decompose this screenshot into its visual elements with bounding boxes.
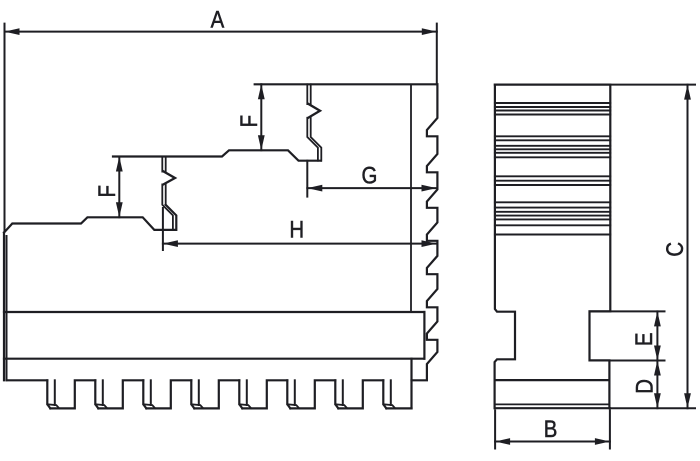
right view serration line y=140.3 — [495, 139, 610, 141]
right view serration line y=107.0 — [495, 106, 610, 108]
tooth 3 left outer edge with corner chamfer — [143, 380, 146, 408]
dimension D arrow down — [654, 393, 661, 408]
dimension H arrow right — [422, 240, 437, 247]
tooth 8 left outer edge with corner chamfer — [383, 380, 386, 408]
dimension E/D extension middle — [612, 360, 665, 362]
tooth 4 left outer edge with corner chamfer — [191, 380, 194, 408]
right view serration line y=234.5 — [495, 234, 610, 236]
dimension A extension line left — [4, 24, 6, 232]
tooth 2 chamfer facet ridge — [95, 404, 107, 408]
right view serration line y=145.8 — [495, 145, 610, 147]
right view serration line y=103.0 — [495, 102, 610, 104]
dimension C arrow down — [684, 393, 691, 408]
jaw left edge inner line — [6, 236, 8, 380]
mounting band right edge — [423, 312, 425, 359]
tooth 5 chamfer facet ridge — [239, 404, 251, 408]
right view serration line y=152.8 — [495, 152, 610, 154]
right view serration line y=202.3 — [495, 201, 610, 203]
tooth 5 left inner edge — [246, 380, 248, 405]
right view serration line y=211.8 — [495, 211, 610, 213]
riser-2 break zigzag — [308, 104, 320, 118]
right view serration line y=207.6 — [495, 207, 610, 209]
dimension E arrow down — [654, 346, 661, 361]
tooth 3 chamfer facet ridge — [143, 404, 155, 408]
svg-text:F: F — [236, 115, 263, 127]
dimension C line — [687, 85, 689, 409]
svg-text:F: F — [93, 185, 120, 197]
right view serration line y=110.5 — [495, 110, 610, 112]
dimension E extension top — [590, 310, 665, 312]
right view serration line y=157.3 — [495, 156, 610, 158]
step-2 top profile with bump and relief — [113, 150, 321, 160]
dimension F upper arrow up — [258, 84, 265, 99]
dimension A extension line right — [436, 24, 438, 85]
dimension C arrow up — [684, 85, 691, 100]
tooth 8 chamfer facet ridge — [383, 404, 395, 408]
svg-text:B: B — [544, 415, 558, 442]
dimension F lower line — [118, 157, 120, 218]
dimension F upper line — [260, 84, 262, 150]
svg-text:A: A — [211, 6, 225, 33]
right view serration line y=219.4 — [495, 218, 610, 220]
step-3 top surface line — [255, 83, 438, 85]
serration root projection line — [410, 84, 412, 312]
right view serration line y=149.3 — [495, 148, 610, 150]
svg-text:G: G — [361, 162, 377, 189]
riser-1 face right line — [165, 157, 167, 205]
dimension A arrow right — [422, 28, 437, 35]
tooth 2 bottom and gap root — [98, 380, 143, 408]
tooth 3 bottom and gap root — [146, 380, 191, 408]
svg-text:H: H — [289, 216, 304, 243]
tooth 1 left inner edge — [54, 380, 56, 405]
tooth 8 bottom (merges right block) — [386, 407, 411, 409]
tooth 5 bottom and gap root — [242, 380, 287, 408]
right view guide step line — [495, 379, 610, 381]
svg-text:D: D — [631, 379, 658, 394]
dimension G extension line — [306, 161, 308, 197]
jaw left edge outer line — [3, 233, 5, 381]
tooth 7 left outer edge with corner chamfer — [335, 380, 338, 408]
tooth 6 bottom and gap root — [290, 380, 335, 408]
mounting band top line — [4, 311, 424, 313]
right view serration line y=136.3 — [495, 135, 610, 137]
tooth 4 chamfer facet ridge — [191, 404, 203, 408]
right view bottom edge — [495, 407, 610, 409]
right view serration line y=185.0 — [495, 184, 610, 186]
tooth 7 left inner edge — [342, 380, 344, 405]
dimension C extension top — [610, 84, 695, 86]
dimension A arrow left — [5, 28, 20, 35]
tooth 3 left inner edge — [150, 380, 152, 405]
dimension G arrow right — [422, 185, 437, 192]
tooth 6 chamfer facet ridge — [287, 404, 299, 408]
dimension C / D extension bottom — [610, 407, 695, 409]
dimension B arrow left — [495, 438, 510, 445]
serrated back edge of jaw — [412, 84, 438, 380]
svg-text:E: E — [630, 332, 657, 346]
riser-2 face right line — [311, 84, 322, 160]
tooth 8 left inner edge — [390, 380, 392, 405]
tooth 4 left inner edge — [198, 380, 200, 405]
right view outline right side — [495, 85, 610, 409]
dimension F lower arrow up — [116, 157, 123, 172]
riser-1 break zigzag — [163, 171, 175, 184]
right block edge below band — [410, 359, 412, 409]
right view serration line y=225.3 — [495, 224, 610, 226]
riser-1 face left line — [162, 157, 173, 229]
dimension B extension left — [494, 411, 496, 449]
right view serration line y=180.7 — [495, 180, 610, 182]
dimension D line — [656, 361, 658, 409]
mounting band bottom line — [4, 358, 424, 360]
dimension G arrow left — [307, 185, 322, 192]
dimension F upper arrow down — [258, 135, 265, 150]
tooth 6 left outer edge with corner chamfer — [287, 380, 290, 408]
tooth 6 left inner edge — [294, 380, 296, 405]
tooth 4 bottom and gap root — [194, 380, 239, 408]
dimension H line — [163, 243, 437, 245]
tooth 2 left outer edge with corner chamfer — [95, 380, 98, 408]
riser-2 face left line — [307, 84, 318, 160]
dimension D arrow up — [654, 361, 661, 376]
dimension F lower arrow down — [116, 202, 123, 217]
tooth 5 left outer edge with corner chamfer — [239, 380, 242, 408]
tooth 1 chamfer facet ridge — [47, 404, 59, 408]
tooth 7 bottom and gap root — [338, 380, 383, 408]
dimension B arrow right — [595, 438, 610, 445]
dimension B line — [495, 441, 610, 443]
tooth 2 left inner edge — [102, 380, 104, 405]
tooth 1 bottom and gap root — [50, 380, 95, 408]
svg-text:C: C — [661, 242, 688, 257]
right view serration line y=114.5 — [495, 114, 610, 116]
jaw step-1 top profile with bump and riser-1 foot — [4, 205, 176, 233]
right view bottom chamfer line — [494, 403, 609, 405]
dimension A line — [5, 31, 437, 33]
right view serration line y=176.3 — [495, 175, 610, 177]
tooth 7 chamfer facet ridge — [335, 404, 347, 408]
dimension E line — [656, 311, 658, 360]
dimension E arrow up — [654, 311, 661, 326]
dimension H extension line — [162, 208, 164, 250]
right view serration line y=215.6 — [495, 215, 610, 217]
right view outline left side with notch — [495, 85, 515, 409]
dimension B extension right — [609, 411, 611, 449]
bottom ledge left — [7, 379, 48, 381]
dimension H arrow left — [163, 240, 178, 247]
dimension G line — [307, 187, 436, 189]
tooth 1 left outer edge with corner chamfer — [47, 380, 50, 408]
